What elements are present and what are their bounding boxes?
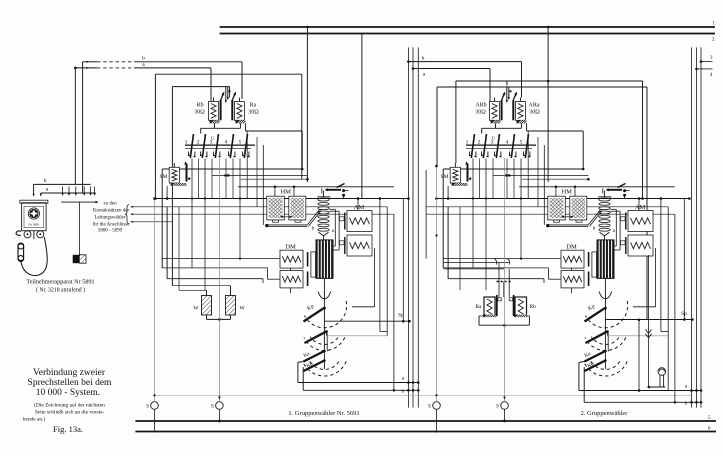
ladder right wires: [329, 208, 335, 210]
selector shaft: [323, 279, 325, 369]
wire: [443, 168, 583, 170]
relay SM armature: [467, 164, 469, 182]
svg-text:5800 - 5899: 5800 - 5899: [98, 229, 123, 234]
bank spring 1b: [475, 152, 477, 157]
wire: [162, 267, 267, 269]
resistor W1: [202, 296, 212, 316]
wire: [537, 137, 539, 207]
wire S gray: [155, 394, 692, 396]
svg-text:S: S: [496, 405, 499, 410]
wire vertical net Sp right: [691, 47, 693, 407]
svg-text:5: 5: [239, 140, 242, 146]
wire b out: [302, 367, 304, 390]
bank spring 2b: [206, 152, 208, 157]
detent bell: [599, 292, 612, 299]
HM linkage: [307, 209, 320, 225]
bank spring 4b: [515, 152, 517, 157]
relay HM bar: [267, 224, 308, 226]
wire: [386, 207, 388, 336]
contact arm right: [512, 100, 514, 120]
svg-text:W: W: [240, 306, 246, 312]
bank contact 3: [496, 136, 499, 159]
bank spring 4a: [228, 152, 230, 156]
wire b subscriber: [83, 61, 97, 63]
bank spring 3a: [494, 152, 496, 156]
wiper Ka: [304, 351, 325, 362]
svg-text:für die Anschlüsse: für die Anschlüsse: [93, 223, 131, 228]
wire coil feeds: [213, 98, 215, 102]
svg-text:2: 2: [478, 140, 481, 146]
wire: [459, 207, 461, 290]
wiper level2: [305, 331, 327, 343]
contact arm left: [220, 100, 222, 120]
lamp S1: [151, 402, 159, 410]
wire: [204, 159, 206, 291]
wire: [447, 207, 449, 279]
relay AM tabs: [621, 217, 626, 221]
wire a link: [413, 68, 490, 70]
wire: [262, 145, 264, 225]
bank contact 5: [244, 136, 247, 159]
svg-text:Sprechstellen bei dem: Sprechstellen bei dem: [28, 378, 113, 388]
wire: [513, 159, 515, 199]
bank contact 2: [202, 136, 205, 159]
arc level3 outer: [303, 361, 347, 376]
relay SM coil: [450, 167, 460, 183]
relay ARa yoke: [516, 120, 526, 123]
wire frame top2: [172, 86, 229, 88]
wire: [357, 199, 359, 212]
wire: [442, 169, 444, 268]
arc level1: [586, 301, 628, 328]
telephone rosette: [28, 208, 39, 219]
telephone hook: [16, 231, 21, 235]
relay HM feet: [273, 220, 279, 222]
svg-text:W: W: [193, 306, 199, 312]
note brace: [125, 205, 129, 225]
arc level2 outer: [585, 338, 626, 351]
telephone bells: [24, 231, 31, 238]
wire a link drop: [489, 69, 491, 102]
lamp S2 stem: [218, 158, 220, 402]
wiper level2: [586, 331, 608, 343]
lamp S2 stem: [504, 158, 506, 402]
arc level2 inner: [310, 337, 338, 345]
wire a out: [297, 362, 299, 382]
svg-text:Sp: Sp: [398, 313, 404, 319]
bank spring 1a: [188, 152, 190, 156]
wire: [506, 159, 508, 199]
selector shaft: [604, 279, 606, 369]
bank spring 3a: [213, 152, 215, 156]
bank spring 5b: [529, 152, 531, 157]
svg-text:S: S: [211, 405, 214, 410]
lamp S1 stem: [154, 199, 156, 402]
arc level1: [305, 301, 347, 328]
wiper Kp: [304, 308, 324, 321]
relay AM coil 1: [628, 211, 653, 232]
relay Ra coil: [484, 297, 495, 316]
wire coil feeds: [494, 98, 496, 102]
arc level3 outer: [584, 361, 628, 376]
resistor W2: [226, 296, 236, 316]
svg-text:1. Gruppenwähler Nr. 5691: 1. Gruppenwähler Nr. 5691: [288, 410, 359, 417]
wire: [211, 159, 213, 199]
relay AM tabs: [340, 217, 345, 221]
bank spring 5a: [523, 152, 525, 156]
wire a subscriber: [75, 67, 97, 69]
bank contact 3: [215, 136, 218, 159]
bank spring 3b: [219, 152, 221, 157]
wire under coils: [214, 123, 216, 128]
wire: [555, 188, 557, 196]
svg-text:HM: HM: [280, 189, 291, 196]
relay SM armature: [186, 164, 188, 182]
svg-text:b: b: [402, 389, 405, 395]
wire to resistor: [78, 202, 80, 255]
wire vertical net3: [700, 47, 702, 407]
wire: [543, 145, 545, 225]
svg-text:ARb: ARb: [475, 103, 486, 109]
relay DM bars: [588, 252, 590, 267]
relay HM coil 2: [289, 196, 306, 220]
wire: [167, 278, 263, 280]
wiper Kb: [304, 361, 325, 372]
plug symbol: [658, 368, 666, 376]
wire vertical mid 3: [417, 47, 419, 407]
relay HM inner arrows: [562, 216, 573, 218]
wire: [448, 278, 544, 280]
wiper Kb: [585, 361, 606, 372]
bank spring 4b: [234, 152, 236, 157]
arc level2 inner: [591, 337, 619, 345]
svg-text:1: 1: [185, 140, 188, 146]
wire: [393, 214, 395, 390]
wire: [162, 258, 279, 260]
svg-text:AM: AM: [354, 204, 365, 211]
svg-text:5: 5: [520, 140, 523, 146]
wire: [425, 170, 427, 259]
wire: [667, 207, 669, 391]
wire: [246, 131, 248, 199]
relay Ra coil: [234, 102, 244, 121]
HM linkage: [588, 209, 601, 225]
arc level3 inner: [591, 361, 620, 369]
contact bars RaRb: [496, 295, 498, 316]
bank contact 1: [471, 136, 474, 159]
relay Rb coil: [209, 102, 219, 121]
relay Ra yoke: [235, 120, 245, 123]
bank spring 4a: [509, 152, 511, 156]
svg-text:Kontaktsätzen der: Kontaktsätzen der: [93, 209, 130, 214]
wire: [527, 131, 529, 199]
wiper Kp: [585, 308, 605, 321]
wire: [443, 258, 560, 260]
wire left vert b: [74, 68, 76, 184]
wire: [256, 137, 258, 207]
bank spring 1b: [194, 152, 196, 157]
telephone body: [22, 203, 46, 231]
relay Rb coil: [515, 297, 527, 316]
svg-text:b: b: [422, 56, 425, 62]
bank spring 2a: [481, 152, 483, 156]
relay SM coil: [169, 167, 179, 183]
bank contact 4: [230, 136, 233, 159]
HM armature: [607, 189, 622, 191]
relay AM coil 2: [347, 235, 372, 256]
bank contact 5: [525, 136, 528, 159]
wire: [519, 186, 675, 188]
relay HM coil 1: [267, 196, 285, 220]
wire: [131, 213, 394, 215]
bank spring 2a: [200, 152, 202, 156]
svg-text:Sp: Sp: [681, 311, 687, 317]
wire frame top2: [437, 86, 647, 88]
svg-text:HM: HM: [561, 189, 572, 196]
wire: [239, 159, 241, 259]
relay AM coil 1: [347, 211, 372, 232]
relay HM bar: [548, 224, 589, 226]
telephone feet: [33, 231, 35, 239]
relay ARb yoke: [491, 120, 501, 123]
bus line 1: [220, 26, 715, 28]
bank spring 2b: [487, 152, 489, 157]
svg-text:Rb: Rb: [196, 103, 203, 109]
svg-text:Verbindung zweier: Verbindung zweier: [33, 368, 106, 378]
wire: [241, 178, 308, 180]
wire: [178, 207, 180, 290]
svg-text:2: 2: [197, 140, 200, 146]
svg-text:Leitungswähler: Leitungswähler: [94, 216, 125, 221]
bank spring 1a: [469, 152, 471, 156]
wire Sp: [324, 320, 409, 322]
wire: [522, 178, 589, 180]
wire: [162, 168, 302, 170]
svg-text:Fig. 13a.: Fig. 13a.: [53, 424, 83, 434]
net 4 stub: [697, 68, 713, 70]
svg-text:b: b: [142, 56, 145, 62]
relay SM yoke: [452, 183, 468, 186]
wire vertical mid 1: [407, 47, 409, 407]
svg-text:SM: SM: [441, 174, 449, 180]
wire: [674, 214, 676, 402]
wire level23 link: [607, 333, 609, 352]
svg-text:DM: DM: [285, 244, 296, 251]
bank contact 2: [483, 136, 486, 159]
bus line 2: [220, 33, 715, 35]
svg-text:Ra: Ra: [475, 304, 482, 310]
svg-text:zu den: zu den: [103, 202, 117, 207]
svg-text:( Nr. 3218 anrufend ): ( Nr. 3218 anrufend ): [36, 287, 85, 294]
wire: [426, 213, 675, 215]
wire: [293, 188, 295, 196]
svg-text:SM: SM: [160, 174, 168, 180]
telephone handset: [18, 244, 24, 261]
HM armature: [326, 189, 341, 191]
contact tips: [225, 87, 227, 101]
bank bar: [185, 144, 255, 146]
wire: [574, 188, 576, 196]
wire frame top1: [155, 73, 301, 75]
contact arm left: [501, 100, 503, 120]
arc level2 outer: [304, 338, 345, 351]
svg-text:Seite schließt sich an die: Seite schließt sich an die vorste-: [35, 409, 105, 416]
svg-text:2. Gruppenwähler: 2. Gruppenwähler: [581, 410, 629, 417]
wire bus2 drop: [361, 34, 363, 199]
wire RaRb bottoms: [478, 316, 480, 325]
telephone cord: [21, 237, 47, 276]
wire: [426, 206, 668, 208]
relay Rb yoke: [210, 120, 220, 123]
svg-text:10 000 - System.: 10 000 - System.: [36, 388, 100, 398]
wire: [436, 198, 689, 200]
wire: [683, 199, 685, 320]
wire: [198, 159, 200, 199]
wire right aux: [638, 320, 640, 391]
relay ARa coil: [515, 102, 525, 121]
relay SM yoke: [171, 183, 187, 186]
wire: [492, 159, 494, 199]
svg-text:b: b: [685, 401, 688, 407]
svg-text:S: S: [428, 405, 431, 410]
wire b drop: [241, 62, 243, 99]
relay HM coil 2: [570, 196, 587, 220]
detent bell: [318, 292, 331, 299]
lamp S2: [501, 402, 509, 410]
svg-text:30Ω: 30Ω: [529, 110, 540, 116]
bus line 6: [135, 431, 716, 433]
wire phone b: [34, 183, 91, 185]
wire Sp: [605, 319, 692, 321]
relay Rb yoke: [514, 315, 528, 318]
lamp S2: [216, 402, 224, 410]
wire vertical net4: [696, 47, 698, 407]
wire: [321, 188, 323, 193]
svg-text:Teilnehmerapparat Nr 5891: Teilnehmerapparat Nr 5891: [26, 279, 94, 286]
wire: [472, 159, 474, 268]
wire a drop: [210, 68, 212, 102]
wire: [638, 199, 640, 212]
junction bar: [61, 201, 96, 203]
wire chevron drop: [648, 255, 650, 387]
wire: [225, 159, 227, 199]
wire frame top1: [456, 80, 643, 82]
wire a out: [578, 362, 580, 390]
svg-text:(Die Zeichnung auf der näc: (Die Zeichnung auf der nächsten: [34, 402, 105, 409]
contact set above RaRb: [498, 263, 500, 298]
relay AM bars: [344, 213, 346, 230]
contact tips: [506, 87, 508, 101]
net 3 stub: [701, 61, 713, 63]
bank spring 5b: [248, 152, 250, 157]
relay Ra yoke: [483, 315, 497, 318]
lamp S1 stem: [436, 166, 438, 402]
wire: [602, 188, 604, 193]
selector cylinder: [316, 239, 334, 279]
svg-text:4: 4: [506, 140, 509, 146]
bank contact 1: [190, 136, 193, 159]
relay HM inner arrows: [281, 216, 292, 218]
wire: [274, 188, 276, 196]
ladder right wires: [610, 208, 616, 210]
wire: [655, 248, 657, 307]
selector cylinder: [597, 239, 615, 279]
svg-text:Ra: Ra: [250, 103, 257, 109]
svg-text:30Ω: 30Ω: [248, 110, 259, 116]
contact arm right: [231, 100, 233, 120]
svg-text:Rb: Rb: [530, 304, 537, 310]
wire level2 out: [607, 332, 609, 336]
wire: [485, 159, 487, 291]
svg-text:b: b: [44, 178, 47, 184]
arc level3 inner: [310, 361, 339, 369]
relay DM coil 2: [561, 271, 584, 288]
svg-text:4: 4: [225, 140, 228, 146]
wire: [131, 206, 388, 208]
svg-text:ARa: ARa: [529, 103, 540, 109]
relay HM feet: [554, 220, 560, 222]
relay AM bars: [625, 213, 627, 230]
contact hooks row: [444, 262, 510, 264]
wire phone a2: [40, 193, 42, 195]
wire b link drop: [521, 62, 523, 98]
relay HM coil 1: [548, 196, 566, 220]
wire: [290, 268, 292, 271]
lamp S1: [433, 402, 441, 410]
relay DM coil 1: [280, 250, 303, 268]
relay AM coil 2: [628, 235, 653, 256]
wire: [402, 199, 404, 322]
wire bus1 drop: [547, 27, 549, 182]
bank spring 3b: [500, 152, 502, 157]
bus line 5: [135, 420, 716, 422]
wire row 269: [444, 268, 505, 270]
svg-text:1: 1: [466, 140, 469, 146]
wire level2 out: [326, 332, 328, 336]
bank bar: [466, 144, 536, 146]
relay DM coil 2: [280, 271, 303, 288]
wire: [520, 159, 522, 259]
svg-text:S: S: [146, 405, 149, 410]
svg-text:30Ω: 30Ω: [194, 110, 205, 116]
wire b out: [583, 367, 585, 402]
wire: [660, 199, 662, 332]
wire: [493, 174, 588, 176]
wire: [191, 159, 193, 268]
relay DM coil 1: [561, 250, 584, 268]
svg-text:hende an.): hende an.): [23, 416, 46, 423]
relay DM bars: [307, 252, 309, 267]
wire: [374, 248, 376, 307]
resistor box: [73, 255, 80, 263]
selector ladder: [604, 191, 606, 197]
junction row arrows: [62, 187, 64, 194]
wiper Ka: [585, 351, 606, 362]
wire: [232, 159, 234, 199]
wire: [238, 186, 394, 188]
wire: [379, 199, 381, 332]
bank spring 5a: [242, 152, 244, 156]
svg-text:DM: DM: [566, 244, 577, 251]
wire vertical mid 2: [412, 47, 414, 407]
svg-text:Nr 5891: Nr 5891: [28, 223, 40, 227]
relay ARb coil: [490, 102, 500, 121]
selector ladder: [323, 191, 325, 197]
wire: [166, 207, 168, 279]
wire bus1 drop: [306, 27, 308, 182]
wire: [161, 169, 163, 268]
svg-text:30Ω: 30Ω: [475, 110, 486, 116]
